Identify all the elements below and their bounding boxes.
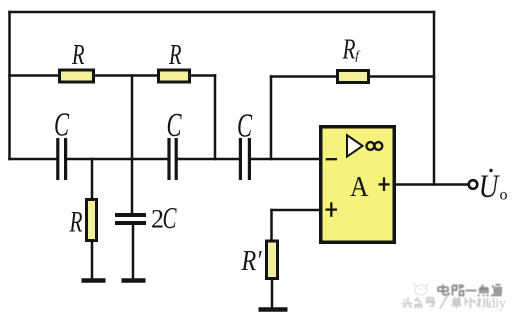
svg-text:R: R (69, 206, 83, 239)
svg-text:C: C (54, 107, 69, 144)
svg-text:A: A (350, 171, 369, 203)
svg-text:C: C (237, 108, 252, 145)
svg-text:U: U (479, 169, 500, 205)
svg-text:C: C (167, 107, 182, 144)
svg-text:R: R (71, 39, 84, 71)
svg-text:C: C (163, 200, 177, 235)
svg-text:R: R (342, 35, 356, 66)
svg-text:R: R (168, 39, 181, 71)
svg-text:diy: diy (489, 296, 507, 311)
svg-text:R′: R′ (241, 246, 263, 277)
svg-text:o: o (500, 187, 508, 204)
